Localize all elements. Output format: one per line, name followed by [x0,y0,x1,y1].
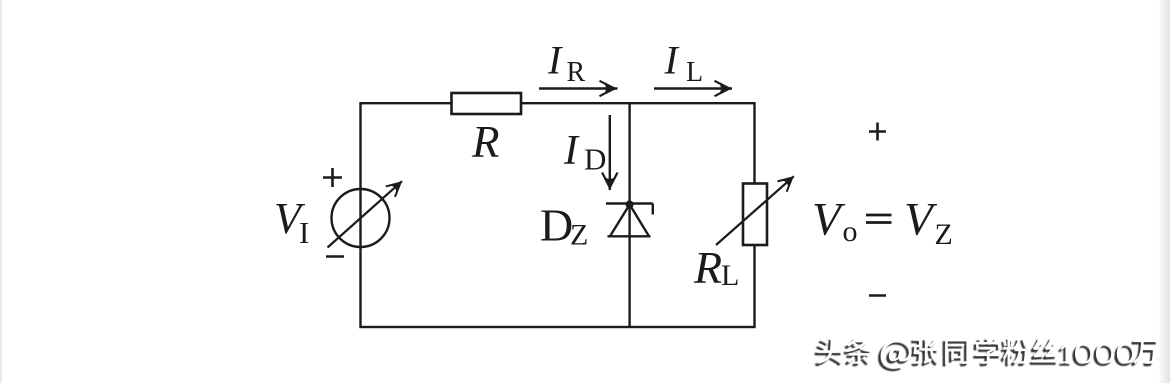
svg-text:I: I [299,215,309,250]
svg-text:V: V [812,194,846,246]
svg-text:Z: Z [570,219,588,252]
svg-text:L: L [721,259,739,292]
svg-text:I: I [664,38,680,83]
svg-text:R: R [693,242,722,293]
svg-text:I: I [547,38,563,83]
svg-text:D: D [584,142,606,177]
svg-text:D: D [540,200,573,251]
svg-text:o: o [843,215,858,248]
svg-text:R: R [471,117,500,167]
svg-text:Z: Z [935,218,953,251]
svg-text:L: L [686,57,703,88]
svg-text:R: R [567,57,586,88]
svg-text:I: I [563,128,580,174]
svg-text:V: V [904,194,938,246]
